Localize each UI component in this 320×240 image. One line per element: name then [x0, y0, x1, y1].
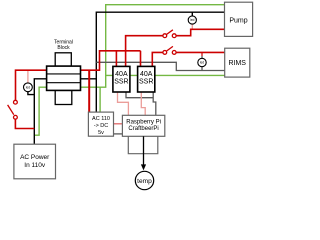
svg-text:In 110v: In 110v	[24, 162, 46, 169]
svg-text:SSR: SSR	[114, 79, 128, 86]
svg-text:40A: 40A	[115, 71, 128, 78]
svg-text:led: led	[26, 86, 30, 90]
svg-text:SSR: SSR	[139, 79, 153, 86]
svg-text:Block: Block	[57, 45, 70, 51]
svg-text:AC 110: AC 110	[92, 116, 110, 122]
svg-text:RIMS: RIMS	[228, 60, 246, 67]
svg-text:temp: temp	[137, 178, 152, 185]
svg-text:Raspberry Pi: Raspberry Pi	[126, 119, 161, 125]
svg-text:-> DC: -> DC	[94, 123, 109, 129]
svg-text:40A: 40A	[140, 71, 153, 78]
svg-text:CraftbeerPi: CraftbeerPi	[128, 126, 158, 132]
svg-text:5v: 5v	[98, 130, 104, 136]
svg-text:led: led	[200, 61, 204, 65]
svg-text:AC Power: AC Power	[20, 154, 50, 161]
svg-text:Pump: Pump	[229, 17, 247, 24]
svg-text:led: led	[190, 18, 194, 22]
